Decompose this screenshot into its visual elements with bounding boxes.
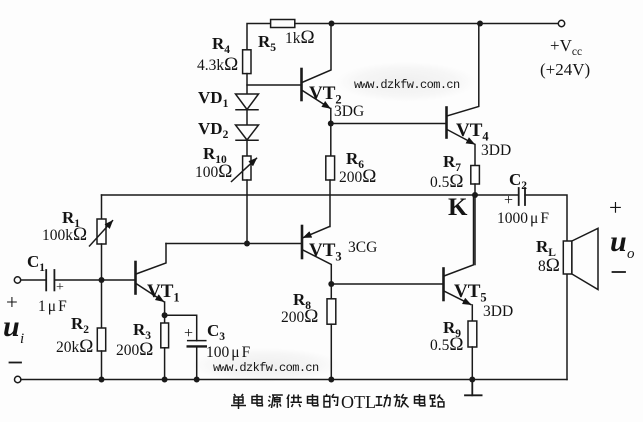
- capacitor C1: [46, 270, 54, 290]
- speaker RL: [563, 228, 598, 289]
- wire VT1 collector to VT3 base: [166, 243, 302, 245]
- wire bottom rail: [21, 379, 567, 381]
- wire VD1 to VD2: [246, 110, 248, 125]
- wire C1 to VT1 base: [54, 279, 135, 281]
- caption char dan: [231, 394, 246, 409]
- wire VT2 base: [247, 84, 301, 86]
- svg-text:3DG: 3DG: [334, 103, 364, 120]
- svg-text:i: i: [20, 331, 24, 347]
- diode VD2: [236, 125, 259, 140]
- wire C3 to bottom rail: [196, 346, 198, 379]
- node VT3 collector / R8 / VT5 base: [328, 281, 334, 287]
- svg-text:8Ω: 8Ω: [538, 255, 560, 276]
- wire R4 bottom to VD1: [246, 74, 248, 94]
- wire base node to R2: [101, 280, 103, 328]
- node VT1 base: [99, 277, 105, 283]
- resistor R2: [97, 328, 105, 351]
- svg-text:3DD: 3DD: [483, 303, 513, 320]
- transistor VT3: [302, 226, 331, 284]
- rheostat R10: [232, 156, 257, 182]
- caption char yuan: [268, 395, 283, 408]
- node top rail / VT4 collector: [477, 21, 483, 27]
- svg-text:1000μF: 1000μF: [497, 210, 549, 227]
- resistor R6: [326, 156, 335, 180]
- resistor R9: [468, 321, 477, 347]
- wire main K rail: [102, 194, 519, 196]
- svg-text:VT1: VT1: [147, 281, 180, 305]
- node VT3 base / R10 branch: [244, 241, 250, 247]
- node ground junction: [469, 377, 475, 383]
- caption char fang: [394, 394, 409, 407]
- node C3 bottom: [194, 377, 200, 383]
- wire R1 bottom to base node: [101, 244, 103, 280]
- wire input to C1: [21, 279, 46, 281]
- resistor R8: [327, 299, 336, 324]
- node top rail / VT2 collector: [329, 21, 335, 27]
- wire node to R6: [330, 124, 332, 157]
- svg-text:R2: R2: [71, 314, 89, 336]
- capacitor C2: [519, 188, 525, 205]
- svg-text:4.3kΩ: 4.3kΩ: [197, 54, 238, 75]
- caption char de: [324, 394, 338, 407]
- transistor VT5: [444, 195, 474, 305]
- +Vcc terminal: [558, 20, 564, 26]
- caption char dian 2: [308, 394, 318, 406]
- wire VD2 to R10: [246, 140, 248, 156]
- svg-text:100μF: 100μF: [206, 344, 251, 361]
- wire node to R8: [330, 284, 332, 299]
- transistor VT4: [447, 27, 479, 145]
- svg-text:1kΩ: 1kΩ: [285, 27, 315, 48]
- node R2 bottom: [99, 377, 105, 383]
- wire R7 to node K: [474, 184, 476, 195]
- svg-text:C3: C3: [207, 321, 225, 343]
- wire VT1 emitter to node: [164, 302, 166, 315]
- svg-text:VD2: VD2: [198, 119, 229, 141]
- wire top rail left corner to R5: [247, 24, 271, 51]
- wire VT3 collector node to VT5 base: [331, 283, 443, 285]
- rheostat R1: [90, 219, 113, 246]
- svg-text:0.5Ω: 0.5Ω: [430, 171, 464, 192]
- resistor R5: [271, 20, 295, 28]
- wire R10 bottom through K rail to VT3 base node: [246, 180, 248, 244]
- svg-text:+: +: [56, 280, 64, 295]
- caption char dian 1: [252, 394, 262, 406]
- svg-text:VT3: VT3: [309, 240, 342, 264]
- wire R1 column top: [101, 195, 103, 219]
- svg-text:VT5: VT5: [454, 281, 487, 305]
- svg-text:C2: C2: [509, 170, 527, 192]
- caption char dian 3: [415, 394, 425, 406]
- caption chinese glyphs: [231, 394, 444, 409]
- svg-text:www.dzkfw.com.cn: www.dzkfw.com.cn: [213, 361, 319, 375]
- svg-text:200Ω: 200Ω: [281, 306, 318, 327]
- wire VT2 emitter to node: [330, 109, 332, 124]
- wire speaker column bottom: [566, 274, 568, 380]
- svg-text:VD1: VD1: [198, 88, 229, 110]
- node R8 bottom rail: [328, 377, 334, 383]
- svg-text:100Ω: 100Ω: [195, 161, 232, 182]
- wire R9 to bottom rail: [471, 347, 473, 380]
- svg-text:R4: R4: [212, 34, 230, 56]
- resistor R4: [243, 50, 251, 74]
- node K: [472, 192, 478, 198]
- capacitor C3: [188, 341, 206, 347]
- transistor VT2: [302, 27, 332, 109]
- caption char gong2: [376, 395, 391, 408]
- svg-text:VT4: VT4: [456, 120, 489, 144]
- wire R8 bottom to ground rail: [330, 324, 332, 379]
- svg-text:www.dzkfw.com.cn: www.dzkfw.com.cn: [354, 78, 460, 92]
- input terminal bottom: [15, 376, 21, 382]
- background shade patches: [192, 62, 476, 382]
- wire VT2 emitter node to VT4 base: [331, 123, 446, 125]
- svg-text:K: K: [448, 194, 468, 221]
- wire R2 to bottom rail: [101, 351, 103, 380]
- resistor R3: [161, 323, 169, 348]
- svg-text:+: +: [609, 195, 622, 220]
- svg-text:200Ω: 200Ω: [339, 166, 376, 187]
- minus sign output: [613, 271, 626, 273]
- svg-text:+: +: [184, 325, 193, 342]
- ground: [465, 380, 482, 396]
- svg-text:o: o: [627, 246, 635, 262]
- svg-text:20kΩ: 20kΩ: [56, 336, 93, 357]
- svg-text:100kΩ: 100kΩ: [42, 224, 87, 245]
- input terminal top: [14, 277, 20, 283]
- svg-text:200Ω: 200Ω: [116, 339, 153, 360]
- svg-text:u: u: [3, 310, 20, 343]
- minus sign input: [10, 362, 22, 364]
- node R3 bottom: [162, 377, 168, 383]
- svg-text:u: u: [610, 225, 627, 258]
- node VT2 emitter / R6 / VT4 base: [328, 121, 334, 127]
- svg-text:1μF: 1μF: [38, 298, 67, 315]
- svg-text:0.5Ω: 0.5Ω: [430, 334, 464, 355]
- svg-text:3CG: 3CG: [348, 239, 377, 256]
- caption char lu: [430, 395, 444, 407]
- node VT1 emitter / R3 / C3: [162, 312, 168, 318]
- wire VT5 emitter to R9: [471, 305, 473, 321]
- transistor VT1: [136, 244, 167, 302]
- svg-text:C1: C1: [27, 252, 45, 274]
- wire emitter node to C3: [165, 315, 197, 340]
- svg-text:+: +: [504, 192, 513, 209]
- wire R6 bottom to VT3 emitter: [329, 180, 331, 227]
- svg-text:(+24V): (+24V): [540, 60, 590, 79]
- svg-text:+Vcc: +Vcc: [550, 36, 582, 58]
- wire VT4 emitter to R7: [474, 145, 476, 166]
- diode VD1: [236, 94, 259, 110]
- wire R3 to bottom rail: [164, 348, 166, 380]
- wire node to R3: [164, 315, 166, 323]
- wire top rail R5 to Vcc terminal: [295, 23, 559, 25]
- wire K down to VT5 collector: [474, 195, 476, 265]
- svg-text:3DD: 3DD: [481, 142, 511, 159]
- svg-text:R5: R5: [258, 32, 276, 54]
- caption char gong1: [287, 395, 302, 409]
- wire C2 to speaker column: [525, 195, 567, 241]
- svg-text:OTL: OTL: [341, 392, 376, 412]
- resistor R7: [471, 166, 480, 185]
